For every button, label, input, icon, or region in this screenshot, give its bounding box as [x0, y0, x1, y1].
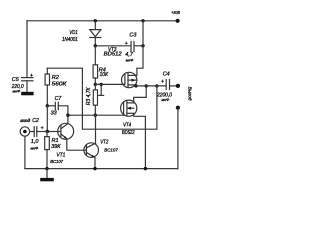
svg-text:VT1: VT1	[56, 153, 65, 159]
capacitor C3 4,7	[125, 32, 143, 62]
trimmer resistor R3 4,7K	[86, 84, 103, 115]
svg-text:+30В: +30В	[171, 10, 180, 16]
svg-text:BC107: BC107	[50, 159, 63, 164]
svg-text:BD522: BD522	[122, 130, 135, 136]
node C3 right junction	[141, 44, 144, 47]
svg-text:+: +	[125, 41, 128, 47]
svg-text:Выход: Выход	[187, 87, 192, 101]
svg-text:1,0: 1,0	[31, 139, 40, 145]
transistor VT3 BD512 (p-MOSFET)	[104, 47, 137, 88]
wire top +30V rail	[27, 20, 178, 22]
svg-text:1N4001: 1N4001	[62, 37, 78, 43]
wire base branch down to input node	[46, 106, 48, 132]
wire input jack to ground rail	[24, 136, 26, 168]
node C7 tap on base branch	[46, 104, 49, 107]
diode VD1 1N4001	[62, 30, 101, 46]
input jack	[20, 118, 39, 136]
svg-text:C7: C7	[55, 96, 63, 102]
node A: VD1 cathode junction	[94, 44, 97, 47]
node trimmer wiper junction	[100, 83, 103, 86]
power terminal +30V	[171, 10, 180, 23]
wire left branch from rail to C5	[26, 21, 28, 77]
node VT4 source at ground rail	[144, 167, 147, 170]
capacitor C2 1,0	[31, 125, 48, 150]
svg-text:мкФ: мкФ	[31, 146, 40, 151]
svg-text:VT2: VT2	[100, 139, 108, 145]
svg-text:C4: C4	[163, 72, 170, 78]
svg-text:VT4: VT4	[123, 122, 131, 128]
svg-text:10К: 10К	[100, 72, 109, 78]
node gate drive junction at R3 bottom	[94, 114, 97, 117]
svg-text:+: +	[30, 73, 33, 79]
wire ground rail	[25, 168, 178, 170]
wire VT1 collector node to VT4 gate	[68, 114, 124, 116]
svg-text:R2: R2	[52, 75, 59, 81]
node feedback riser at output rail	[155, 84, 158, 87]
wire bias node to VT3 gate	[95, 83, 125, 85]
svg-text:R3 4,7К: R3 4,7К	[86, 86, 92, 105]
svg-text:33: 33	[51, 110, 58, 116]
svg-text:C5: C5	[12, 77, 20, 83]
svg-text:мкФ: мкФ	[162, 97, 171, 102]
node on rail at VD1	[94, 19, 97, 22]
resistor R2 560K	[45, 68, 67, 106]
node VT1 collector junction	[66, 114, 69, 117]
wire VD1 node to C3	[95, 45, 131, 47]
svg-text:+: +	[41, 125, 44, 131]
capacitor C4 2200,0	[156, 72, 173, 102]
wire feedback loop	[47, 68, 157, 129]
svg-text:вход: вход	[20, 118, 30, 124]
svg-text:BD512: BD512	[104, 52, 122, 58]
node input/base junction	[46, 130, 49, 133]
svg-text:C3: C3	[129, 32, 137, 38]
node on rail at riser	[141, 19, 144, 22]
transistor VT1 BC107	[47, 115, 86, 164]
node VT3 source at output rail	[134, 84, 137, 87]
capacitor C5	[11, 73, 33, 93]
output terminal plus	[176, 84, 180, 88]
svg-text:VD1: VD1	[69, 30, 77, 36]
svg-text:560К: 560К	[52, 81, 68, 87]
node VT2 emitter at ground rail	[93, 167, 96, 170]
node R4/R3 junction	[94, 83, 97, 86]
wire output return to ground rail	[177, 108, 179, 169]
svg-text:мкФ: мкФ	[126, 57, 135, 62]
wire rail to VD1 anode	[94, 21, 96, 30]
node VT4 drain at output rail	[145, 84, 148, 87]
ground (main symbol)	[40, 169, 54, 182]
ground (under C5)	[21, 92, 33, 96]
node R1 / ground symbol junction	[45, 167, 48, 170]
output terminal minus	[176, 106, 180, 110]
resistor R4 10K	[93, 46, 109, 85]
capacitor C7 33	[47, 96, 68, 116]
wire riser from rail to VT3 drain	[137, 21, 143, 76]
svg-text:BC107: BC107	[104, 148, 118, 153]
transistor VT2 BC107	[84, 115, 118, 168]
wire output rail	[136, 85, 166, 87]
svg-text:мкФ: мкФ	[13, 88, 22, 93]
svg-text:C2: C2	[32, 118, 39, 124]
svg-text:+: +	[161, 79, 164, 85]
resistor R1 39K	[45, 132, 61, 169]
svg-text:39К: 39К	[51, 144, 61, 150]
transistor VT4 BD522 (n-MOSFET)	[121, 86, 147, 169]
